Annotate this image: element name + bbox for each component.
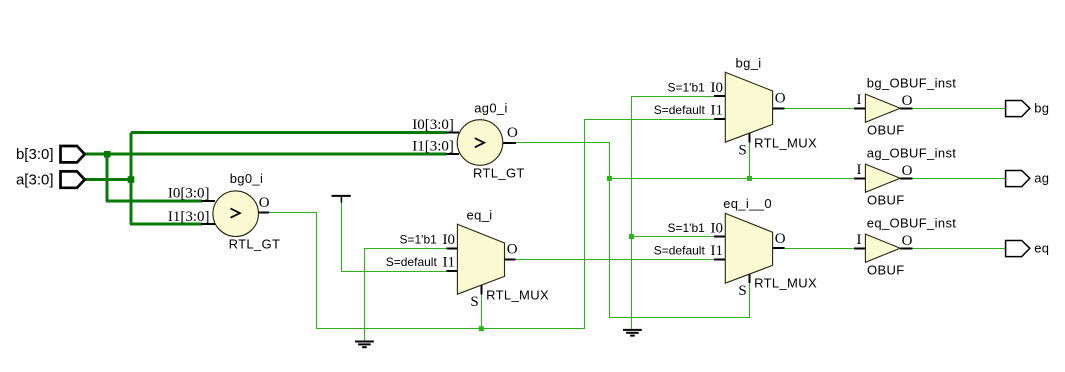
mux eq_i__0 body	[725, 213, 772, 283]
svg-text:eq_i__0: eq_i__0	[723, 196, 772, 211]
pin stub eq_OBUF I	[854, 247, 866, 249]
comparator bg0_i greater-than symbol	[231, 209, 240, 218]
svg-text:O: O	[259, 195, 270, 211]
wire bg_i S pin drop	[749, 143, 751, 179]
wire bus feed into bg0_i I1	[130, 223, 202, 226]
power vcc bar	[332, 195, 351, 197]
wire net eq_OBUF output to port eq	[912, 248, 1005, 250]
wire eq_i S pin drop	[481, 295, 483, 329]
port ag output	[1006, 171, 1030, 187]
wire vcc net down and right to eq_i I1	[342, 203, 447, 272]
node junction ag wire turn	[607, 176, 612, 181]
comparator ag0_i body	[457, 120, 503, 166]
pin stub ag0_i O	[503, 142, 516, 144]
svg-text:RTL_GT: RTL_GT	[473, 165, 525, 180]
pin stub bg0_i I1	[201, 223, 215, 225]
pin stub ag0_i I1	[447, 153, 460, 155]
pin stub eq_OBUF O	[900, 247, 912, 249]
svg-text:O: O	[902, 93, 913, 109]
node junction on b bus	[104, 151, 111, 158]
pin stub eq_i__0 I1	[714, 259, 725, 261]
pin stub bg_i S	[749, 133, 751, 143]
wire bus feed into bg0_i I0	[106, 200, 202, 203]
svg-text:bg: bg	[1034, 100, 1049, 115]
wire bus b[3:0] horizontal to ag0_i I1	[84, 153, 447, 156]
svg-text:O: O	[902, 163, 913, 179]
svg-text:S: S	[470, 294, 478, 310]
svg-text:b[3:0]: b[3:0]	[16, 146, 54, 163]
svg-text:OBUF: OBUF	[867, 193, 905, 208]
ground G1 bar 1	[355, 341, 374, 343]
svg-text:O: O	[507, 242, 518, 258]
buffer bg_OBUF_inst body	[865, 94, 900, 122]
wire ground net branch to eq_i__0 I0	[632, 236, 715, 238]
node junction eq_i__0 I0 tap	[629, 234, 634, 239]
svg-text:I0[3:0]: I0[3:0]	[412, 117, 454, 133]
wire net ag_OBUF output to port ag	[912, 178, 1005, 180]
wire ground net to bg_i I0 and down to ground G2	[632, 97, 715, 330]
svg-text:I1[3:0]: I1[3:0]	[168, 209, 210, 225]
svg-text:ag: ag	[1034, 170, 1049, 185]
svg-text:I1: I1	[711, 103, 724, 119]
svg-text:I: I	[857, 162, 862, 178]
mux eq_i body	[457, 224, 504, 294]
buffer ag_OBUF_inst body	[865, 164, 900, 192]
svg-text:I1: I1	[711, 243, 724, 259]
svg-text:S: S	[738, 283, 746, 299]
ground G2 bar 3	[630, 335, 635, 337]
mux bg_i body	[725, 72, 772, 142]
svg-text:bg_i: bg_i	[736, 56, 762, 71]
pin stub bg_i I0	[714, 95, 725, 97]
svg-text:I1: I1	[443, 255, 456, 271]
pin stub eq_i__0 I0	[714, 236, 725, 238]
svg-text:bg_OBUF_inst: bg_OBUF_inst	[867, 75, 956, 90]
pin stub bg_OBUF O	[900, 107, 912, 109]
port eq output	[1006, 241, 1030, 257]
pin stub bg0_i O	[258, 211, 269, 213]
svg-text:RTL_MUX: RTL_MUX	[486, 287, 549, 302]
wire ground net to eq_i I0 and down to ground G1	[365, 249, 447, 341]
wire net ag0_O down to S rail of eq_i__0	[516, 143, 750, 318]
svg-text:O: O	[902, 233, 913, 249]
ground G1 bar 2	[358, 343, 371, 345]
pin stub ag_OBUF I	[854, 177, 866, 179]
port bg output	[1006, 101, 1030, 117]
svg-text:S=default: S=default	[654, 244, 706, 258]
wire bus a[3:0] vertical at x=131	[130, 132, 133, 224]
port a[3:0] input	[61, 171, 85, 187]
svg-text:I0: I0	[711, 221, 724, 237]
wire net bg_OBUF output to port bg	[912, 108, 1005, 110]
wire net bg_i O to bg_OBUF input	[785, 108, 854, 110]
svg-text:S=1'b1: S=1'b1	[399, 233, 437, 247]
svg-text:S=default: S=default	[386, 255, 438, 269]
svg-text:OBUF: OBUF	[867, 263, 905, 278]
node junction bg_i S on ag wire	[747, 176, 752, 181]
svg-text:a[3:0]: a[3:0]	[16, 171, 54, 188]
svg-text:bg0_i: bg0_i	[230, 171, 264, 186]
pin stub eq_i O	[505, 259, 516, 261]
pin stub bg0_i I0	[201, 200, 215, 202]
pin stub bg_OBUF I	[854, 107, 866, 109]
svg-text:ag0_i: ag0_i	[474, 101, 508, 116]
svg-text:RTL_MUX: RTL_MUX	[754, 135, 817, 150]
comparator ag0_i greater-than symbol	[475, 138, 484, 147]
pin stub ag_OBUF O	[900, 177, 912, 179]
wire net eq_i O to eq_i__0 I1	[516, 259, 715, 261]
pin stub eq_i__0 O	[773, 247, 785, 249]
svg-text:eq: eq	[1034, 240, 1049, 255]
svg-text:S=default: S=default	[654, 103, 706, 117]
pin stub eq_i__0 S	[749, 274, 751, 283]
svg-text:S=1'b1: S=1'b1	[667, 221, 705, 235]
svg-text:I: I	[857, 92, 862, 108]
ground G1 bar 3	[362, 346, 367, 348]
pin stub ag0_i I0	[447, 131, 460, 133]
svg-text:RTL_MUX: RTL_MUX	[754, 275, 817, 290]
pin stub eq_i S	[481, 285, 483, 294]
ground G2 bar 2	[626, 332, 639, 334]
svg-text:I: I	[857, 232, 862, 248]
power vcc stem	[340, 197, 342, 203]
svg-text:RTL_GT: RTL_GT	[229, 237, 281, 252]
comparator bg0_i body	[213, 191, 259, 237]
port b[3:0] input	[61, 146, 85, 162]
buffer eq_OBUF_inst body	[865, 234, 900, 262]
svg-text:I0: I0	[443, 232, 456, 248]
wire bus a[3:0] horizontal from port	[84, 178, 131, 181]
wire net ag to ag_OBUF input	[610, 178, 855, 180]
pin stub eq_i I1	[447, 270, 458, 272]
wire bus b[3:0] vertical drop at x=107	[106, 154, 109, 201]
svg-text:eq_i: eq_i	[467, 208, 493, 223]
svg-text:I0[3:0]: I0[3:0]	[168, 185, 210, 201]
svg-text:O: O	[775, 91, 786, 107]
node junction on a bus	[128, 176, 135, 183]
wire net bg0_O to bg_i I1 (down, along bottom, up right)	[269, 120, 714, 329]
pin stub bg_i I1	[714, 118, 725, 120]
wire net eq_i__0 O to eq_OBUF input	[785, 248, 854, 250]
svg-text:S=1'b1: S=1'b1	[667, 81, 705, 95]
svg-text:O: O	[507, 125, 518, 141]
svg-text:OBUF: OBUF	[867, 123, 905, 138]
svg-text:ag_OBUF_inst: ag_OBUF_inst	[867, 145, 956, 160]
svg-text:I1[3:0]: I1[3:0]	[412, 139, 454, 155]
svg-text:eq_OBUF_inst: eq_OBUF_inst	[867, 215, 956, 230]
node junction eq_i S on bottom rail	[479, 326, 484, 331]
svg-text:I0: I0	[711, 80, 724, 96]
pin stub eq_i I0	[447, 247, 458, 249]
wire bus feed into ag0_i I0	[131, 131, 447, 134]
svg-text:O: O	[775, 231, 786, 247]
svg-text:S: S	[738, 143, 746, 159]
pin stub bg_i O	[773, 107, 785, 109]
ground G2 bar 1	[623, 329, 642, 331]
